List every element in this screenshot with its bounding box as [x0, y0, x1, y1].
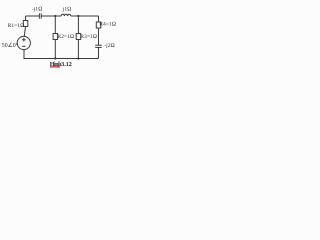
capacitor C1 plate right: [40, 13, 42, 18]
caption red underline: [50, 66, 60, 67]
wire R2 branch upper: [54, 16, 56, 34]
resistor R1 box: [23, 21, 28, 27]
wire R2 branch lower: [54, 40, 56, 59]
wire source bottom to bottom-left corner: [24, 50, 55, 59]
voltage source minus sign: [22, 45, 26, 47]
svg-text:R1=1Ω: R1=1Ω: [8, 23, 25, 29]
svg-text:3.12: 3.12: [61, 62, 72, 68]
resistor R2 box: [53, 34, 58, 40]
svg-text:R2=1Ω: R2=1Ω: [57, 34, 74, 40]
wire capacitor to node A: [41, 15, 61, 17]
node C junction dot (bottom, R2): [54, 57, 56, 59]
capacitor C1 plate left: [38, 13, 40, 18]
voltage source V1 circle: [17, 36, 30, 49]
node A junction dot (top, R2): [54, 15, 56, 17]
wire bottom middle segment: [55, 58, 78, 60]
resistor R4 box: [96, 22, 101, 28]
wire R4 to capacitor C2: [98, 28, 100, 45]
node D junction dot (bottom, R3): [77, 57, 79, 59]
wire R1 to source: [24, 27, 25, 37]
wire C2 to bottom-right corner: [98, 47, 100, 58]
capacitor C2 plate bottom: [95, 46, 102, 48]
wire bottom right segment: [78, 58, 98, 60]
resistor R3 box: [76, 34, 81, 40]
svg-text:50∠0°: 50∠0°: [2, 42, 19, 49]
wire R3 branch upper: [77, 16, 79, 34]
capacitor C2 plate top: [95, 44, 102, 46]
svg-text:R3=1Ω: R3=1Ω: [80, 34, 97, 40]
wire inductor to top-right corner: [71, 15, 99, 17]
inductor L1 coil: [61, 14, 71, 16]
svg-text:-j1Ω: -j1Ω: [32, 6, 43, 12]
wire R3 branch lower: [77, 40, 79, 59]
wire top-left segment: [26, 15, 40, 17]
wire right branch upper: [98, 16, 100, 22]
svg-text:j1Ω: j1Ω: [62, 6, 72, 12]
svg-text:R4=1Ω: R4=1Ω: [99, 21, 116, 27]
wire left branch vertical upper: [25, 16, 27, 21]
voltage source plus sign: [22, 38, 26, 42]
node B junction dot (top, R3): [77, 15, 79, 17]
svg-text:-j2Ω: -j2Ω: [104, 43, 115, 49]
